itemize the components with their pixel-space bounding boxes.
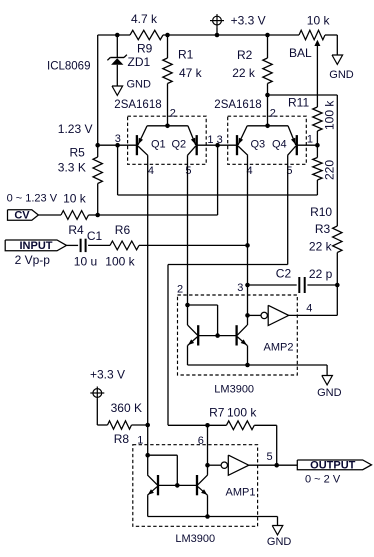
- svg-text:LM3900: LM3900: [175, 533, 215, 545]
- svg-text:ZD1: ZD1: [128, 55, 151, 69]
- svg-text:C2: C2: [276, 267, 292, 281]
- svg-text:4.7 k: 4.7 k: [131, 12, 158, 26]
- svg-text:10 k: 10 k: [63, 192, 87, 206]
- svg-text:0 ~ 1.23 V: 0 ~ 1.23 V: [7, 193, 58, 205]
- svg-text:22 p: 22 p: [309, 267, 333, 281]
- svg-text:CV: CV: [14, 210, 30, 222]
- svg-text:2: 2: [270, 108, 276, 120]
- svg-text:4: 4: [306, 303, 312, 315]
- svg-text:GND: GND: [317, 387, 342, 399]
- svg-text:100 k: 100 k: [323, 100, 337, 130]
- svg-text:LM3900: LM3900: [214, 384, 254, 396]
- svg-text:R11: R11: [288, 96, 309, 110]
- svg-text:22 k: 22 k: [232, 66, 256, 80]
- svg-text:1: 1: [137, 434, 143, 446]
- svg-text:3.3 K: 3.3 K: [58, 161, 86, 175]
- svg-text:1: 1: [207, 134, 213, 146]
- svg-text:R8: R8: [114, 432, 130, 446]
- svg-text:BAL: BAL: [289, 46, 312, 60]
- svg-text:AMP2: AMP2: [264, 342, 294, 354]
- svg-text:R9: R9: [137, 42, 153, 56]
- svg-text:4: 4: [148, 165, 154, 177]
- svg-text:0 ~ 2 V: 0 ~ 2 V: [305, 474, 341, 486]
- svg-text:2SA1618: 2SA1618: [114, 99, 161, 111]
- svg-text:1: 1: [307, 133, 313, 145]
- svg-text:C1: C1: [87, 229, 103, 243]
- svg-text:10 k: 10 k: [307, 14, 331, 28]
- svg-text:3: 3: [237, 282, 243, 294]
- svg-text:2: 2: [177, 284, 183, 296]
- svg-text:100 k: 100 k: [227, 406, 257, 420]
- svg-text:Q4: Q4: [272, 139, 287, 151]
- svg-text:Q3: Q3: [251, 139, 266, 151]
- svg-text:220: 220: [323, 160, 337, 180]
- svg-text:INPUT: INPUT: [20, 240, 53, 252]
- svg-text:R10: R10: [310, 205, 332, 219]
- svg-text:6: 6: [198, 435, 204, 447]
- svg-text:10 u: 10 u: [74, 255, 97, 269]
- svg-text:Q1: Q1: [151, 139, 166, 151]
- svg-text:OUTPUT: OUTPUT: [310, 460, 356, 472]
- svg-text:R7: R7: [209, 406, 225, 420]
- svg-text:AMP1: AMP1: [226, 487, 256, 499]
- svg-text:R6: R6: [115, 223, 131, 237]
- svg-text:47 k: 47 k: [179, 66, 203, 80]
- svg-text:R4: R4: [68, 223, 84, 237]
- svg-text:+3.3 V: +3.3 V: [231, 14, 266, 28]
- svg-text:R5: R5: [70, 146, 86, 160]
- svg-text:R3: R3: [315, 222, 331, 236]
- svg-text:ICL8069: ICL8069: [47, 61, 90, 73]
- svg-text:+3.3 V: +3.3 V: [90, 368, 125, 382]
- svg-text:GND: GND: [267, 536, 292, 548]
- svg-text:GND: GND: [127, 79, 152, 91]
- svg-text:R2: R2: [237, 48, 253, 62]
- svg-text:Q2: Q2: [172, 139, 187, 151]
- svg-text:2SA1618: 2SA1618: [214, 99, 261, 111]
- svg-text:R1: R1: [178, 48, 194, 62]
- svg-text:360 K: 360 K: [111, 401, 142, 415]
- svg-text:1.23 V: 1.23 V: [58, 122, 93, 136]
- svg-text:2: 2: [170, 108, 176, 120]
- svg-text:5: 5: [185, 165, 191, 177]
- svg-text:100 k: 100 k: [105, 255, 135, 269]
- svg-text:5: 5: [267, 451, 273, 463]
- svg-text:2 Vp-p: 2 Vp-p: [15, 253, 51, 267]
- svg-text:22 k: 22 k: [309, 240, 333, 254]
- svg-text:GND: GND: [329, 69, 354, 81]
